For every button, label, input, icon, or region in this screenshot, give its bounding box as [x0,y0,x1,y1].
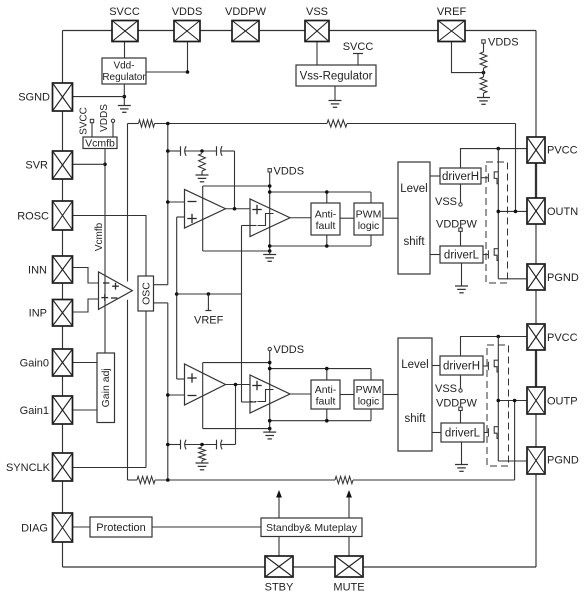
svg-text:PVCC: PVCC [547,332,578,344]
wire Vdd-Regulator to VDDS pad [146,42,188,72]
transistor ch1 high-side FET [481,171,498,183]
junction ch1 anti bottom [325,244,329,248]
wire ch1 Level to driverH [430,175,440,177]
svg-text:Protection: Protection [96,522,146,534]
pad SYNCLK [53,453,73,481]
resistor ch1 feedback R2 [327,120,347,127]
wire thick PVCC-OUTP segment [535,350,537,387]
junction SVR on Vcmfb line [103,163,107,167]
svg-text:driverL: driverL [444,250,480,262]
block ch2 driverH [440,356,483,375]
svg-text:STBY: STBY [265,582,294,594]
capacitor ch2 C2 [217,440,223,450]
wire ch2 rail to Anti-fault bottom [326,409,328,421]
wire ch1 output to pad [498,210,527,212]
wire ch1 feedback vertical [515,124,517,212]
wire ch2 driverH to PVCC [461,337,528,357]
svg-text:Anti-: Anti- [315,384,337,396]
wire ch1 VDDPW to driverL [460,231,462,246]
terminal ch2 VDDS [268,347,271,350]
wire ch1 rail to Anti-fault bottom [326,235,328,246]
arrow STBY control up [278,496,280,518]
block ch1 driverH [440,168,481,184]
wire ch2 comparator to Anti-fault [290,393,311,395]
wire ch1 Level to driverL [430,254,440,256]
svg-text:Regulator: Regulator [102,72,146,83]
wire ch1 rail top right [270,191,371,193]
junction divider tap [482,71,486,75]
wire thick PVCC-OUTN segment [535,163,537,198]
wire VDDS terminal to resistor [483,43,485,52]
wire ch2 cap right [221,444,236,446]
op-amp U1 input amplifier [99,272,133,310]
junction ch2 PVCC/FET drain [497,335,501,339]
ground ch2 filter [196,463,209,470]
pad MUTE [335,556,363,577]
wire between divider resistors [483,68,485,77]
svg-text:MUTE: MUTE [333,582,364,594]
wire VREF vertical to both + inputs [176,217,178,379]
wire ch1 integrator minus input [168,201,185,203]
dashed box ch1 power stage [486,162,508,283]
resistor upper divider [480,52,487,68]
wire comparator reference vertical [241,226,243,403]
block ch1 PWM logic [354,203,383,235]
wire ch1 integrator plus input [177,216,185,218]
pad ROSC [53,201,73,230]
svg-text:PGND: PGND [547,455,579,467]
SVCC tap bar [353,53,363,55]
junction ch1 cap line left [166,149,170,153]
wire ch1 rail top left [203,185,270,187]
pad SVCC [112,21,138,42]
wire VREF distribution line [177,293,242,295]
wire ch2 rail bottom right [270,420,371,422]
op-amp ch1 integrator [185,190,226,229]
svg-text:OSC: OSC [141,282,153,305]
junction ch1 minus input [166,200,170,204]
svg-text:VDDS: VDDS [172,6,203,18]
wire ch1 FET chain vertical [497,149,499,279]
block ch1 driverL [440,246,483,263]
resistor ch2 filter R [199,447,206,461]
wire ch1 rail to ground [269,251,271,255]
junction ch1 output/cap [233,207,237,211]
pad INN [53,256,73,283]
junction ch2 cap line left [166,443,170,447]
junction ch1 feedback tap at output [514,210,518,214]
wire OSC upper output [154,284,168,286]
wire ch2 rail to PWM top [370,369,372,380]
terminal ch2 VDDPW [459,407,462,410]
wire ch1 driverL to ground [461,263,463,286]
resistor ch1 filter R [199,154,206,172]
wire Protection to Standby [152,526,261,528]
terminal ch1 VSS [459,203,462,206]
svg-text:Gain adj: Gain adj [100,368,112,407]
capacitor ch2 C1 [181,440,187,450]
ground ch1 driverL [455,286,468,293]
wire ch2 cap line to integrator output [235,385,237,445]
ground ch1 rail [263,255,276,262]
junction ch1 railBL [268,249,272,253]
block ch1 Level shift [398,162,430,274]
svg-text:INP: INP [29,308,47,320]
glyph ch2 integrator minus [188,395,197,397]
block Vss-Regulator [296,65,376,86]
wire right bus [535,31,537,568]
svg-text:Vdd-: Vdd- [113,61,134,72]
svg-text:PGND: PGND [547,272,579,284]
wire Vdd-Regulator to ground [123,84,125,106]
svg-text:Vcmfb: Vcmfb [85,138,115,150]
op-amp ch2 integrator [185,364,226,405]
terminal ch1 VDDS [268,169,271,172]
svg-text:VSS: VSS [435,383,457,395]
svg-text:Vss-Regulator: Vss-Regulator [300,71,373,83]
junction VREF line left [175,292,179,296]
svg-text:VREF: VREF [194,315,224,327]
wire ch2 rail top left [203,362,270,364]
wire ch1 cap line to integrator output [234,151,236,209]
junction ch2 railBR [268,419,272,423]
block ch2 Anti-fault [311,380,340,409]
wire ch2 rail to Anti-fault top [326,369,328,380]
transistor ch2 low-side FET [484,426,498,438]
junction ch1 output node [497,210,501,214]
wire ch2 rail top right [270,368,371,370]
svg-text:Gain1: Gain1 [20,405,49,417]
wire SVCC pad to Vdd-Regulator [124,42,126,59]
svg-text:logic: logic [358,396,380,408]
resistor ch2 feedback R2 [335,476,353,483]
wire ch1 feedback to output [347,123,516,125]
wire ch2 cap line left [168,444,181,446]
svg-text:VDDS: VDDS [99,104,110,132]
svg-text:VSS: VSS [306,6,328,18]
glyph ch2 integrator plus [187,373,196,382]
junction ch2 output node [497,399,501,403]
block OSC [138,276,154,311]
svg-text:VDDPW: VDDPW [225,6,267,18]
block Vcmfb [83,137,117,149]
svg-text:VREF: VREF [437,6,467,18]
wire ch1 driverH to PVCC [461,149,528,168]
junction ch1 PVCC/FET drain [497,147,501,151]
arrow MUTE control up [348,496,350,518]
wire VREF stub [207,294,209,311]
block Standby & Muteplay [261,518,362,537]
wire SVCC tap to Vss-Regulator [357,54,359,66]
svg-text:fault: fault [316,220,336,232]
wire ch2 Level to driverH [432,365,440,367]
svg-text:SYNCLK: SYNCLK [6,462,51,474]
wire DIAG to Protection [72,526,90,528]
svg-text:VDDPW: VDDPW [436,398,478,410]
svg-text:VDDS: VDDS [274,344,305,356]
junction ch2 railTL [268,361,272,365]
svg-text:Standby& Muteplay: Standby& Muteplay [266,522,358,534]
svg-text:OUTP: OUTP [547,396,578,408]
wire ROSC to OSC [73,216,146,277]
wire ch2 cap mid [185,444,217,446]
glyph ch1 comparator hysteresis [258,214,274,226]
wire ch1 rail left leg [202,186,204,251]
glyph ch1 integrator minus [188,201,197,203]
terminal SVCC mini [90,119,93,122]
block ch2 PWM logic [354,380,383,409]
wire ch1 filter R to ground [201,171,203,175]
glyph ch1 integrator plus [187,214,196,223]
ground ch2 driverL [455,465,468,472]
wire INP to op-amp [71,299,99,312]
block Protection [90,517,152,537]
wire ch2 VDDS vertical [269,351,271,429]
resistor lower divider [480,77,487,93]
wire bottom bus [63,566,537,568]
wire ch1 PWM to Level shift [383,217,398,219]
svg-text:VDDS: VDDS [488,37,519,49]
wire Standby box to MUTE pad [348,537,350,557]
wire SYNCLK pad [72,467,146,469]
svg-text:ROSC: ROSC [17,211,49,223]
block ch2 Level shift [398,338,432,451]
junction ch1 railTR [268,190,272,194]
svg-text:driverH: driverH [442,171,479,183]
svg-text:Vcmfb: Vcmfb [94,222,105,251]
svg-text:shift: shift [403,236,425,248]
wire ch2 filter R to ground [201,461,203,464]
svg-text:OUTN: OUTN [547,206,578,218]
junction ch2 anti top [325,367,329,371]
wire ch2 output to pad [498,400,527,402]
svg-text:SVR: SVR [25,160,48,172]
wire resistor to ground [483,93,485,98]
svg-text:SVCC: SVCC [109,6,140,18]
wire SGND pad to regulator ground [73,96,124,98]
op-amp plus out [112,283,119,290]
wire ch2 integrator output [226,384,251,386]
dashed box ch2 power stage [487,345,509,466]
wire ch1 driverH to VSS [460,184,462,203]
wire ch1 feedback line [128,123,139,125]
wire SVCC mini to Vcmfb [91,123,93,137]
junction ch1 anti top [325,190,329,194]
wire ch2 rail to PWM bottom [370,409,372,421]
comparator ch1 [250,199,290,237]
pad PVCC ch1 [527,137,545,163]
wire ch1 rail bottom right [270,245,371,247]
wire ch1 cap mid [185,150,217,152]
op-amp minus out [111,297,117,299]
wire to ch1 comparator lower input [242,225,257,227]
svg-text:PWM: PWM [356,209,382,221]
wire ch2 feedback to output [353,479,515,481]
wire ch1 FET source to PGND [498,278,527,280]
junction ch2 cap resistor tap [200,443,204,447]
terminal ch2 VSS [459,389,462,392]
wire ch2 rail left leg [202,363,204,429]
wire ch2 integrator plus input [177,378,185,380]
wire ch1 summing vertical [167,124,169,285]
wire op-amp upper output to ch1 [127,124,129,282]
svg-text:driverH: driverH [443,361,480,373]
junction VREF stub [207,292,211,296]
junction ch2 railBL [268,427,272,431]
svg-text:PVCC: PVCC [547,145,578,157]
svg-text:Gain0: Gain0 [20,358,49,370]
wire Vss-Regulator to ground [334,86,336,101]
wire OSC lower output [154,302,168,304]
svg-text:Level: Level [400,183,428,195]
wire ch1 rail bottom left [203,250,270,252]
resistor ch1 feedback R1 [139,120,155,127]
wire ch2 Level to driverL [432,432,441,434]
wire ch1 rail to Anti-fault top [326,192,328,203]
wire Standby box to STBY pad [278,537,280,557]
terminal VDDS mini [111,119,114,122]
wire OSC to SYNCLK line [145,311,147,468]
wire ch2 PWM to Level shift [383,394,398,396]
transistor ch2 high-side FET [483,360,498,372]
wire ch1 VDDS vertical [269,172,271,251]
svg-text:driverL: driverL [445,428,481,440]
transistor ch1 low-side FET [483,248,498,260]
ground below Vdd-Regulator [118,106,131,113]
pad DIAG [53,513,73,542]
wire ch1 feedback mid [155,123,328,125]
block ch2 driverL [441,423,484,442]
wire left bus [62,31,64,568]
pad INP [53,300,73,327]
pad Gain0 [53,349,73,376]
svg-text:PWM: PWM [356,384,382,396]
glyph ch2 comparator hysteresis [258,390,274,402]
svg-text:SVCC: SVCC [79,107,90,135]
junction ch2 anti bottom [325,419,329,423]
pad VDDS [174,21,200,42]
op-amp plus in [101,294,108,301]
block Vdd-Regulator [102,58,146,84]
pad OUTN [527,198,545,224]
svg-text:Anti-: Anti- [315,209,337,221]
wire ch2 feedback vertical [514,401,516,481]
wire SVR pad to Vcmfb line [73,163,105,165]
wire to ch2 comparator lower input [242,401,257,403]
ground ch1 filter [196,175,209,182]
svg-text:SGND: SGND [18,92,50,104]
junction ch2 feedback tap [166,478,170,482]
svg-text:shift: shift [404,413,426,425]
glyph ch1 comparator plus [252,205,261,214]
junction SGND wire [123,95,127,99]
junction ch2 output/cap [234,383,238,387]
ground ch2 rail [263,432,276,439]
svg-text:fault: fault [316,396,336,408]
svg-text:INN: INN [28,265,47,277]
comparator ch2 [250,375,290,413]
junction ch1 railBR [268,244,272,248]
wire ch2 Anti-fault to PWM [340,394,354,396]
terminal VDDS [482,40,485,43]
capacitor ch1 C2 [217,146,223,156]
op-amp minus in [103,282,109,284]
pad VDDPW [232,21,259,42]
wire ch2 summing vertical [167,303,169,480]
wire ch2 feedback line [128,479,138,481]
block Gain adj [97,353,115,423]
wire ch2 driverL to ground [461,442,463,465]
junction ch1 feedback tap [166,122,170,126]
pad PVCC ch2 [527,324,545,350]
wire VSS pad to Vss-Regulator [316,42,318,65]
ground below Vss-Regulator [329,101,342,108]
pad OUTP [527,387,545,414]
block ch1 Anti-fault [311,203,340,235]
wire Gain0 to Gain adj [73,362,97,364]
pad SGND [53,83,73,111]
junction ch1 cap resistor tap [200,149,204,153]
wire Gain1 to Gain adj [73,409,97,411]
wire ch2 FET source to PGND [498,460,527,462]
wire Vcmfb line down to Gain adj [104,149,106,354]
wire ch2 feedback mid [155,479,335,481]
wire ch2 rail bottom left [203,428,270,430]
wire ch2 driverH to VSS [460,375,462,389]
svg-text:VSS: VSS [435,196,457,208]
svg-text:VDDPW: VDDPW [436,219,478,231]
junction under VDDS pad [186,70,190,74]
svg-text:SVCC: SVCC [343,41,374,53]
svg-text:DIAG: DIAG [21,523,48,535]
capacitor ch1 C1 [181,146,187,156]
pad SVR [53,151,73,179]
wire VREF pad to divider tap [452,41,484,73]
ground below divider [477,98,490,105]
junction ch2 minus input [166,393,170,397]
pad PGND ch2 [527,447,545,474]
wire ch1 integrator output [226,208,251,210]
junction ch2 railTR [268,367,272,371]
resistor ch2 feedback R1 [137,476,155,483]
svg-text:logic: logic [358,220,380,232]
svg-text:Level: Level [401,359,429,371]
wire op-amp lower output to ch2 [127,300,129,480]
pad Gain1 [53,396,73,424]
wire ch1 comparator to Anti-fault [290,217,311,219]
terminal ch1 VDDPW [459,228,462,231]
wire ch1 cap line left [168,150,181,152]
VREF stub bar [205,310,211,312]
wire ch1 cap right [221,150,235,152]
wire top bus [63,30,537,32]
wire ch1 rail to PWM top [370,192,372,203]
svg-text:VDDS: VDDS [274,165,305,177]
wire ch1 Anti-fault to PWM [340,217,354,219]
wire VDDS mini to Vcmfb [112,123,114,138]
pad STBY [265,556,293,577]
junction ch2 feedback tap at output [513,399,517,403]
junction ch1 railTL [268,184,272,188]
pad VSS [305,21,329,42]
pad VREF [438,21,465,42]
wire ch2 FET chain vertical [497,337,499,462]
wire ch1 rail to PWM bottom [370,235,372,246]
wire ch2 VDDPW to driverL [460,411,462,424]
glyph ch2 comparator plus [252,381,261,390]
pad PGND ch1 [527,264,545,290]
wire INN to op-amp [71,268,99,284]
